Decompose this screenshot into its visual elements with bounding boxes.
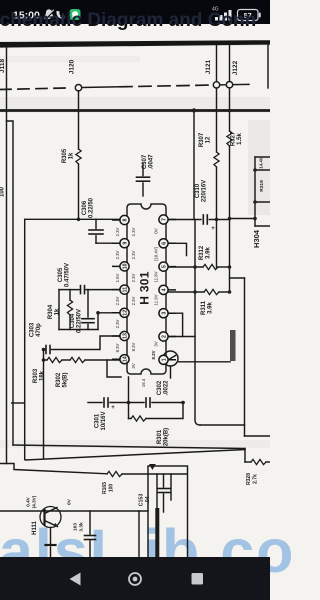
svg-text:3.9k: 3.9k [208, 302, 214, 314]
svg-text:0V: 0V [154, 228, 159, 233]
svg-text:R327: R327 [231, 131, 237, 146]
svg-text:R305: R305 [62, 148, 68, 163]
svg-text:5: 5 [162, 265, 168, 268]
svg-text:(4.3V): (4.3V) [32, 495, 37, 508]
svg-text:2.3V: 2.3V [131, 296, 136, 305]
svg-text:12: 12 [206, 136, 212, 143]
svg-text:163: 163 [73, 523, 79, 531]
svg-text:6: 6 [162, 242, 168, 245]
svg-text:0.47/50V: 0.47/50V [65, 263, 71, 287]
svg-text:11: 11 [123, 287, 129, 293]
svg-text:3.3k: 3.3k [79, 522, 85, 532]
svg-text:3V: 3V [154, 341, 159, 346]
svg-text:J118: J118 [0, 59, 6, 73]
svg-text:8.3V: 8.3V [131, 342, 136, 351]
svg-text:R319: R319 [259, 180, 265, 192]
svg-text:.0047: .0047 [149, 154, 155, 170]
svg-text:20k(B): 20k(B) [164, 428, 170, 446]
svg-text:R165: R165 [102, 482, 108, 494]
svg-text:1k: 1k [55, 308, 61, 315]
svg-text:C301: C301 [95, 413, 101, 428]
svg-text:100: 100 [109, 484, 115, 493]
svg-text:220/16V: 220/16V [202, 180, 208, 202]
svg-text:C153: C153 [139, 494, 145, 507]
svg-text:4: 4 [162, 288, 168, 291]
svg-text:100: 100 [0, 186, 6, 197]
svg-text:16.4: 16.4 [141, 378, 146, 387]
svg-text:8: 8 [123, 218, 129, 221]
svg-text:3V: 3V [131, 363, 136, 368]
svg-text:13: 13 [123, 333, 129, 339]
svg-text:H304: H304 [252, 229, 261, 248]
svg-text:11.8V: 11.8V [154, 271, 159, 282]
svg-text:2.3V: 2.3V [131, 227, 136, 236]
svg-text:2.3V: 2.3V [115, 296, 120, 305]
svg-text:10/16V: 10/16V [101, 411, 107, 430]
svg-text:+: + [111, 405, 115, 411]
svg-text:9: 9 [123, 242, 129, 245]
svg-text:R307: R307 [199, 132, 205, 147]
svg-text:8.3V: 8.3V [151, 350, 156, 359]
svg-text:470p: 470p [36, 323, 42, 337]
svg-text:C303: C303 [30, 322, 36, 337]
svg-text:0V: 0V [67, 498, 72, 505]
svg-text:10: 10 [123, 263, 129, 269]
svg-text:0.4V: 0.4V [26, 496, 31, 506]
svg-text:R303: R303 [33, 368, 39, 383]
svg-text:7: 7 [162, 218, 168, 221]
svg-text:C304: C304 [70, 313, 76, 328]
svg-text:3.9k: 3.9k [206, 247, 212, 259]
svg-text:2.3V: 2.3V [131, 250, 136, 259]
svg-text:R328: R328 [246, 473, 252, 485]
svg-text:5k(B): 5k(B) [63, 372, 69, 387]
svg-text:J120: J120 [69, 59, 76, 74]
svg-text:+: + [211, 226, 215, 232]
svg-text:H111: H111 [32, 520, 38, 534]
svg-text:1k: 1k [69, 152, 75, 159]
svg-text:C306: C306 [82, 200, 88, 215]
svg-text:0.22/50V: 0.22/50V [77, 309, 83, 333]
svg-text:R302: R302 [56, 372, 62, 387]
svg-text:.04: .04 [145, 496, 151, 503]
svg-text:C307: C307 [142, 154, 148, 169]
svg-text:12: 12 [123, 310, 129, 316]
svg-text:2.3V: 2.3V [131, 273, 136, 282]
svg-text:8.3V: 8.3V [115, 343, 120, 352]
svg-text:18k: 18k [40, 370, 46, 381]
svg-text:H 301: H 301 [138, 271, 152, 305]
svg-text:2.3V: 2.3V [115, 319, 120, 328]
svg-text:C310: C310 [195, 183, 201, 198]
svg-text:11.9V: 11.9V [154, 294, 159, 305]
svg-text:3: 3 [162, 312, 168, 315]
svg-text:(10.4V): (10.4V) [154, 246, 159, 261]
svg-text:.0022: .0022 [164, 380, 170, 396]
svg-text:J121: J121 [205, 59, 212, 74]
svg-text:14: 14 [123, 356, 129, 362]
svg-text:1.5V: 1.5V [115, 273, 120, 282]
svg-text:C302: C302 [157, 380, 163, 395]
svg-text:R304: R304 [48, 304, 54, 319]
svg-text:J122: J122 [232, 60, 239, 75]
svg-text:C305: C305 [58, 267, 64, 282]
svg-text:14.4V: 14.4V [259, 157, 264, 169]
svg-text:2.3V: 2.3V [115, 227, 120, 236]
svg-text:2.3V: 2.3V [115, 250, 120, 259]
svg-text:2.7k: 2.7k [253, 474, 259, 484]
svg-text:1: 1 [162, 358, 168, 361]
svg-text:R311: R311 [201, 300, 207, 315]
svg-text:0.22/50: 0.22/50 [89, 197, 95, 218]
svg-text:1.5k: 1.5k [237, 133, 243, 145]
svg-text:2: 2 [162, 335, 168, 338]
svg-text:R301: R301 [157, 429, 163, 444]
svg-text:R312: R312 [199, 245, 205, 260]
